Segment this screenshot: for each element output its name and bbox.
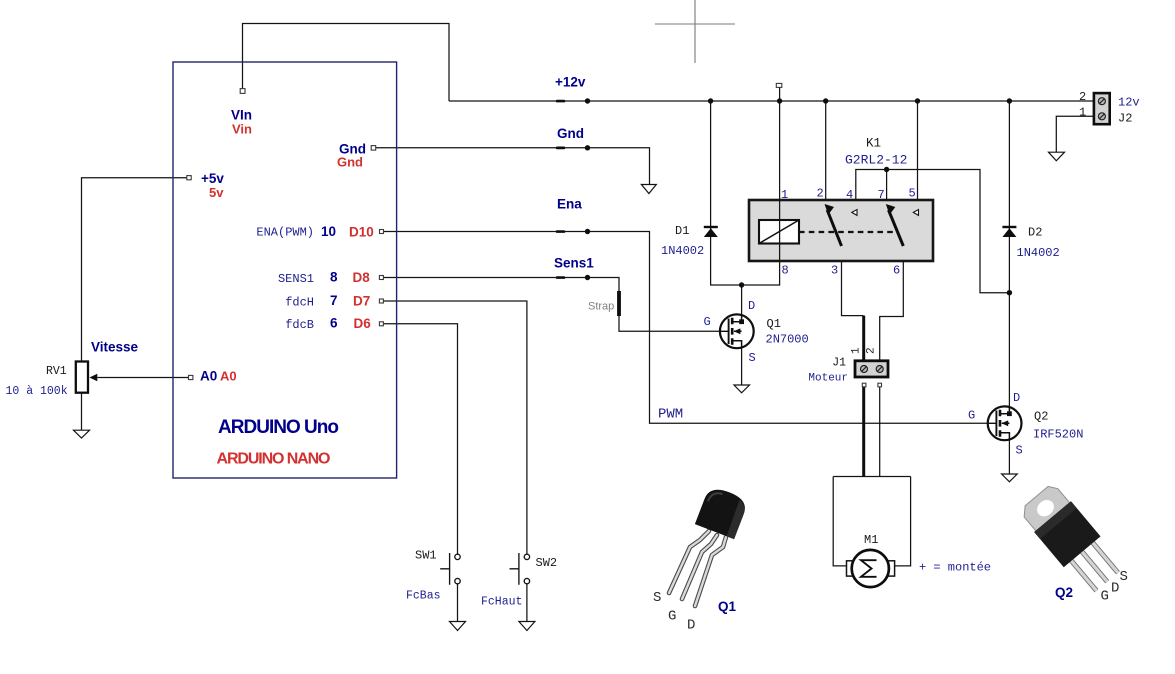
svg-text:PWM: PWM bbox=[658, 407, 683, 423]
svg-text:8: 8 bbox=[782, 264, 789, 278]
svg-text:Q1: Q1 bbox=[767, 317, 781, 331]
svg-text:J2: J2 bbox=[1118, 112, 1132, 126]
svg-text:SENS1: SENS1 bbox=[278, 272, 314, 286]
svg-text:SW2: SW2 bbox=[536, 556, 558, 570]
svg-text:FcBas: FcBas bbox=[406, 590, 441, 603]
svg-text:Vin: Vin bbox=[232, 122, 252, 137]
svg-text:Moteur: Moteur bbox=[808, 373, 848, 385]
svg-text:6: 6 bbox=[330, 316, 338, 331]
svg-text:SW1: SW1 bbox=[415, 549, 437, 563]
svg-text:Gnd: Gnd bbox=[337, 155, 363, 170]
svg-text:D7: D7 bbox=[353, 294, 370, 309]
svg-text:Q2: Q2 bbox=[1055, 585, 1073, 600]
svg-text:Sens1: Sens1 bbox=[554, 256, 594, 271]
svg-text:2N7000: 2N7000 bbox=[766, 333, 809, 347]
svg-text:IRF520N: IRF520N bbox=[1033, 428, 1083, 442]
svg-text:8: 8 bbox=[330, 270, 338, 285]
svg-text:S: S bbox=[749, 351, 756, 365]
svg-text:+ = montée: + = montée bbox=[919, 561, 991, 575]
svg-text:Q1: Q1 bbox=[718, 599, 737, 614]
svg-text:S: S bbox=[1016, 444, 1023, 458]
svg-text:D: D bbox=[1013, 391, 1020, 405]
svg-text:A0: A0 bbox=[200, 369, 217, 384]
svg-text:5: 5 bbox=[909, 187, 916, 201]
svg-text:fdcB: fdcB bbox=[285, 318, 314, 332]
svg-text:D6: D6 bbox=[354, 316, 372, 331]
svg-text:5v: 5v bbox=[209, 185, 224, 200]
svg-text:D1: D1 bbox=[675, 224, 689, 238]
svg-text:6: 6 bbox=[893, 264, 900, 278]
svg-text:M1: M1 bbox=[864, 533, 878, 547]
svg-text:K1: K1 bbox=[866, 137, 881, 151]
svg-text:D: D bbox=[687, 618, 695, 634]
svg-text:2: 2 bbox=[1079, 90, 1086, 104]
svg-text:10 à 100k: 10 à 100k bbox=[6, 385, 68, 398]
svg-text:ENA(PWM): ENA(PWM) bbox=[256, 226, 314, 240]
svg-text:D: D bbox=[1111, 581, 1119, 597]
svg-text:D10: D10 bbox=[349, 225, 374, 240]
svg-text:FcHaut: FcHaut bbox=[481, 596, 522, 609]
svg-text:Gnd: Gnd bbox=[557, 126, 584, 141]
svg-text:G2RL2-12: G2RL2-12 bbox=[845, 153, 907, 168]
svg-text:1: 1 bbox=[1079, 106, 1086, 120]
svg-text:Ena: Ena bbox=[557, 197, 582, 212]
svg-text:D: D bbox=[748, 299, 755, 313]
svg-text:Vitesse: Vitesse bbox=[91, 340, 139, 355]
svg-text:4: 4 bbox=[846, 188, 853, 202]
svg-text:fdcH: fdcH bbox=[285, 296, 314, 310]
svg-text:2: 2 bbox=[866, 347, 878, 354]
svg-text:12v: 12v bbox=[1118, 96, 1140, 110]
svg-text:S: S bbox=[653, 590, 661, 606]
svg-text:10: 10 bbox=[321, 224, 336, 239]
svg-text:G: G bbox=[668, 609, 676, 625]
svg-text:D8: D8 bbox=[353, 270, 371, 285]
svg-text:1: 1 bbox=[851, 347, 863, 354]
svg-text:1N4002: 1N4002 bbox=[1017, 246, 1060, 260]
svg-text:G: G bbox=[704, 315, 711, 329]
svg-text:1: 1 bbox=[781, 188, 788, 202]
svg-text:1N4002: 1N4002 bbox=[661, 244, 704, 258]
svg-text:G: G bbox=[1101, 589, 1109, 605]
svg-text:S: S bbox=[1120, 569, 1128, 585]
svg-text:+5v: +5v bbox=[201, 171, 224, 186]
svg-text:D2: D2 bbox=[1028, 226, 1042, 240]
svg-text:A0: A0 bbox=[220, 369, 237, 384]
svg-text:3: 3 bbox=[831, 264, 838, 278]
svg-text:G: G bbox=[968, 409, 975, 423]
svg-text:Q2: Q2 bbox=[1034, 410, 1048, 424]
svg-text:VIn: VIn bbox=[231, 108, 252, 123]
svg-text:2: 2 bbox=[817, 187, 824, 201]
svg-text:Strap: Strap bbox=[588, 301, 614, 313]
svg-text:ARDUINO NANO: ARDUINO NANO bbox=[217, 451, 331, 468]
svg-text:+12v: +12v bbox=[555, 75, 586, 90]
svg-text:7: 7 bbox=[330, 293, 338, 308]
svg-text:J1: J1 bbox=[832, 357, 846, 370]
svg-text:RV1: RV1 bbox=[46, 365, 67, 378]
svg-text:7: 7 bbox=[878, 188, 885, 202]
svg-text:ARDUINO Uno: ARDUINO Uno bbox=[218, 417, 339, 438]
